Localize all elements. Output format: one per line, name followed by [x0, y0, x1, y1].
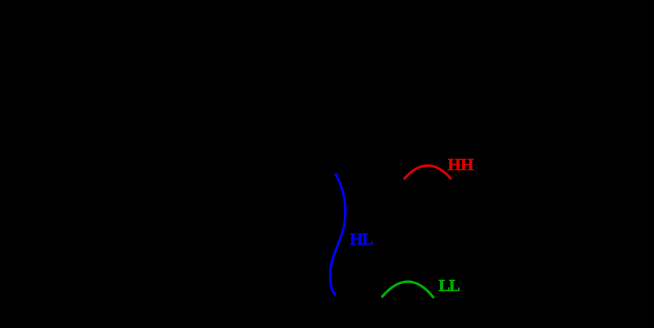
wire green LL arc — [382, 282, 433, 298]
wire blue HL brace curve — [330, 174, 345, 294]
wire red HH arc — [404, 166, 450, 179]
svg-text:HL: HL — [350, 229, 373, 248]
svg-text:HH: HH — [448, 155, 474, 174]
svg-text:LL: LL — [439, 276, 460, 295]
